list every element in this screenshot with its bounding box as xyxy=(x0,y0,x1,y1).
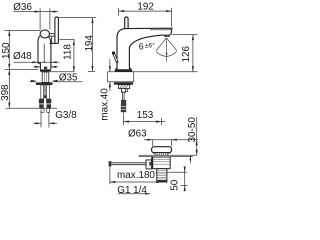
dim 153 line xyxy=(123,121,165,123)
dim 30-50 line xyxy=(196,117,198,155)
arrow 398 top xyxy=(8,69,10,75)
rod end cap xyxy=(109,161,112,166)
hose right front xyxy=(47,85,50,99)
nut hatch xyxy=(120,85,129,89)
arrow 398 bottom xyxy=(8,103,10,109)
plinth front xyxy=(40,69,51,71)
arrow basin stub xyxy=(190,155,192,160)
svg-text:max.40: max.40 xyxy=(99,88,110,121)
tailpiece threads xyxy=(157,171,167,180)
drain neck xyxy=(155,153,168,156)
stream arrow xyxy=(166,53,168,57)
spout underside xyxy=(129,35,163,69)
svg-text:Ø63: Ø63 xyxy=(128,129,147,140)
arrow G3/8 right xyxy=(49,122,55,124)
arrow Ø36 right xyxy=(50,11,56,13)
counter top right front xyxy=(51,71,75,73)
arrow Ø63 right xyxy=(171,139,177,141)
counter bottom side xyxy=(107,81,133,83)
dim 192 ext right xyxy=(171,8,173,27)
plinth side xyxy=(115,69,133,72)
arrow max40 top xyxy=(109,66,111,72)
arrow Ø35 left xyxy=(35,66,41,68)
aerator xyxy=(164,35,170,37)
drain neck hatch xyxy=(157,153,165,156)
dim 194 ext bottom xyxy=(88,70,95,72)
svg-text:Ø36: Ø36 xyxy=(13,2,32,13)
body side outline xyxy=(117,28,172,69)
dim 192 line xyxy=(119,10,172,12)
basin line lower xyxy=(139,156,193,158)
connector side xyxy=(121,100,126,104)
nut side xyxy=(119,85,130,89)
svg-text:153: 153 xyxy=(137,110,154,121)
drain cap xyxy=(152,147,172,153)
pull rod knob xyxy=(112,51,115,54)
body front dome right xyxy=(49,37,51,43)
svg-text:max.180: max.180 xyxy=(117,170,155,181)
dim Ø35 line xyxy=(34,66,58,68)
shank side xyxy=(122,88,126,92)
arrow max40 bottom xyxy=(109,82,111,88)
shank side tab xyxy=(125,89,127,92)
arrow 153 right xyxy=(156,121,162,123)
washer front xyxy=(36,82,53,85)
drain body left edge thick xyxy=(151,157,153,169)
stream left fan xyxy=(156,38,166,51)
svg-text:192: 192 xyxy=(137,2,153,13)
arrow 194 top xyxy=(91,18,93,24)
arrow G3/8 left xyxy=(36,122,42,124)
stream arc xyxy=(156,52,176,57)
arrow Ø36 left xyxy=(35,11,41,13)
dim 126 line xyxy=(192,35,194,72)
svg-text:G3/8: G3/8 xyxy=(55,110,77,121)
dim 118 ext top xyxy=(60,39,75,41)
lever front xyxy=(55,17,59,44)
pull rod inner xyxy=(114,54,117,61)
shank inner lines front xyxy=(44,72,46,82)
arrow 126 bottom xyxy=(192,66,194,72)
svg-text:398: 398 xyxy=(0,84,11,101)
arrow Ø48 left xyxy=(32,61,38,63)
hose nut right front xyxy=(46,99,51,104)
arrow Ø35 right xyxy=(51,66,57,68)
spout top inner line xyxy=(150,29,171,31)
dim Ø63 line xyxy=(144,139,198,141)
rod joint pin xyxy=(149,162,152,166)
stream center line xyxy=(166,39,168,62)
arrow 118 bottom xyxy=(73,66,75,72)
basin stub line xyxy=(189,155,191,163)
drain body xyxy=(153,157,171,169)
dim max40 line upper xyxy=(109,59,111,72)
arrow 30-50 bottom xyxy=(196,150,198,156)
arrow 30-50 top xyxy=(196,140,198,146)
tailpiece xyxy=(157,169,167,182)
arrow 126 top xyxy=(192,35,194,41)
dim 50 line xyxy=(184,166,186,191)
hose end left xyxy=(39,104,44,108)
dim Ø36 ext right xyxy=(49,8,51,29)
lever pin front xyxy=(49,34,55,37)
body front base step xyxy=(38,63,40,69)
basin line upper xyxy=(139,154,197,156)
center pipe tip xyxy=(44,95,46,98)
body front right edge xyxy=(50,43,52,69)
svg-text:Ø48: Ø48 xyxy=(13,51,32,62)
hose nut left front xyxy=(39,99,44,104)
pivot circle front xyxy=(40,30,49,38)
svg-text:194: 194 xyxy=(84,35,95,52)
svg-text:118: 118 xyxy=(62,44,73,60)
base detail mark front xyxy=(44,67,47,70)
dim Ø36 ext left xyxy=(39,8,41,30)
svg-text:50: 50 xyxy=(170,179,181,190)
dim 194 ext top xyxy=(59,17,97,19)
dim 153 ext left xyxy=(122,116,124,126)
hose left front xyxy=(41,85,44,99)
arrow Ø63 left xyxy=(147,139,153,141)
dim 118 line xyxy=(73,40,75,72)
arrow 150 bottom xyxy=(8,64,10,70)
washer side xyxy=(114,82,133,84)
dim G3/8 ext xyxy=(41,111,49,128)
counter bottom front xyxy=(30,81,83,83)
counter edges side xyxy=(107,72,133,82)
dim max40 line lower xyxy=(109,82,111,91)
dim 150-398 line xyxy=(8,30,10,108)
arrow Ø48 right xyxy=(51,61,57,63)
arrow 50 top xyxy=(184,167,186,173)
arrow 118 top xyxy=(73,40,75,46)
svg-text:G1 1/4: G1 1/4 xyxy=(117,185,147,196)
body front inner line xyxy=(43,44,45,63)
dim G3/8 line xyxy=(33,122,57,124)
arrow max180 right xyxy=(156,181,162,183)
rod lines xyxy=(111,163,146,165)
svg-text:±6°: ±6° xyxy=(145,42,155,50)
arrow 192 right xyxy=(166,10,172,12)
arrow max180 left xyxy=(110,181,116,183)
dim Ø48 line xyxy=(14,61,60,63)
dim 126 ext top xyxy=(173,34,198,36)
arrow 192 left xyxy=(119,10,125,12)
hose stub left xyxy=(41,108,44,112)
dim 50 ext top xyxy=(156,172,188,185)
svg-text:126: 126 xyxy=(181,45,192,62)
hose side xyxy=(121,104,126,112)
svg-text:6: 6 xyxy=(139,41,144,51)
washer arrow right xyxy=(52,80,58,82)
center pipe front xyxy=(44,85,46,95)
counter top side extended xyxy=(107,71,197,73)
svg-text:Ø35: Ø35 xyxy=(59,73,78,84)
arrow 150 top xyxy=(8,30,10,36)
dim 192 ext left xyxy=(118,8,120,16)
lever front step xyxy=(49,42,58,44)
dim max180 line xyxy=(110,181,162,183)
dim max180 ext left xyxy=(109,167,111,184)
dim Ø63 ext xyxy=(153,140,172,146)
hose nut streaks xyxy=(121,107,126,110)
G1 1/4 underline leader xyxy=(118,193,146,195)
shank tube front xyxy=(42,72,49,82)
hose stub right xyxy=(47,108,50,112)
drain body lines xyxy=(153,159,171,164)
arrow 194 bottom xyxy=(91,66,93,72)
arrow 153 left xyxy=(123,121,128,123)
arrows xyxy=(8,10,198,195)
base flange side xyxy=(116,68,130,69)
dim Ø48 ext right xyxy=(50,59,52,66)
dim 398 ext bottom xyxy=(5,107,57,109)
pull rod side xyxy=(114,54,117,61)
tailpiece end band xyxy=(157,180,167,182)
svg-text:150: 150 xyxy=(1,42,12,59)
arrow G114 right xyxy=(145,193,151,195)
dim 150 ext bottom xyxy=(5,68,38,70)
arrow 50 bottom xyxy=(184,186,186,192)
thin tube side xyxy=(123,92,125,100)
lever side xyxy=(125,17,128,29)
dim 153 ext right xyxy=(161,118,163,125)
stream right fan xyxy=(166,38,177,51)
dim Ø36 line xyxy=(14,11,59,13)
dim 150 ext top xyxy=(5,29,41,31)
hose end right xyxy=(47,104,52,108)
lever front neck xyxy=(51,36,53,43)
washer arrow left xyxy=(31,80,37,82)
drain cap bottom edge xyxy=(153,152,171,154)
hose end side xyxy=(122,112,124,116)
svg-text:30-50: 30-50 xyxy=(187,117,198,143)
rod joint xyxy=(146,160,152,169)
dim 194 line xyxy=(92,18,94,72)
body front left xyxy=(38,35,42,64)
